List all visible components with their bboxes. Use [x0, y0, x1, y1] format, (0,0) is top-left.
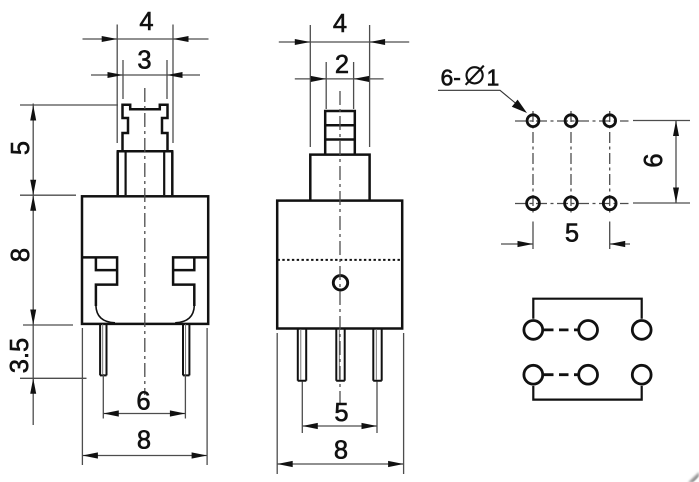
front view: main body rectangle — [82, 196, 208, 324]
svg-text:6: 6 — [136, 388, 150, 416]
svg-text:8: 8 — [7, 248, 35, 262]
dimension 8 (front view bottom overall) — [82, 328, 207, 465]
side view: plunger with ribs — [325, 111, 355, 154]
dimension 2 (side view) — [295, 51, 384, 109]
svg-text:8: 8 — [334, 437, 348, 465]
svg-text:4: 4 — [333, 10, 347, 38]
hole pattern: centerlines — [515, 111, 629, 216]
schematic: top pole bracket wire — [533, 299, 641, 319]
dimension 6 (hole pattern right) — [633, 121, 690, 204]
front view: right internal hook — [173, 257, 207, 306]
front view: push button cap outline — [123, 105, 168, 151]
dimension 6 (front view bottom pins) — [103, 374, 185, 419]
svg-text:5: 5 — [7, 141, 35, 155]
hole pattern: six drill holes — [527, 115, 617, 210]
dimension 4 (side view top) — [279, 10, 409, 147]
schematic: bottom pole bracket wire — [533, 386, 641, 400]
front view: right pin — [183, 324, 190, 375]
dimension column left: 5 / 8 / 3.5 — [6, 104, 118, 426]
schematic: top row dashed link — [544, 328, 578, 331]
front view: vertical centerline — [144, 88, 146, 395]
side view: middle pin — [336, 329, 345, 381]
dimension 8 (side view overall) — [277, 333, 403, 474]
dimension 4 (front view top) — [83, 8, 209, 143]
svg-text:3: 3 — [137, 47, 151, 75]
side view: vertical centerline — [339, 91, 341, 405]
svg-text:5: 5 — [334, 399, 348, 427]
dimension 3 (front view) — [91, 47, 200, 100]
front view: left internal hook — [83, 257, 117, 306]
front view: left pin — [100, 324, 107, 375]
front view: stem inner shaft lines — [126, 152, 165, 195]
dimension 5 (hole pattern bottom) — [501, 220, 630, 250]
svg-text:6-: 6- — [441, 64, 461, 90]
svg-text:5: 5 — [565, 220, 579, 248]
svg-text:6: 6 — [640, 153, 668, 167]
svg-text:8: 8 — [137, 427, 151, 455]
front view: stem flange rectangle — [117, 151, 174, 195]
schematic: bottom row dashed link — [544, 373, 578, 376]
schematic: contact terminals six circles — [524, 321, 651, 385]
side view: right pin — [373, 329, 382, 381]
svg-text:4: 4 — [139, 8, 153, 36]
dimension 5 (side view pins) — [302, 382, 377, 434]
svg-text:1: 1 — [487, 64, 500, 90]
page corner curl artifact — [688, 472, 699, 482]
side view: left pin — [298, 329, 307, 381]
side view: main body rectangle — [277, 201, 402, 329]
svg-text:3.5: 3.5 — [6, 338, 34, 373]
side view: dotted parting line — [278, 259, 403, 261]
side view: small hole circle — [333, 276, 347, 290]
front view: left bottom inner arc — [96, 306, 115, 323]
side view: stem flange — [310, 155, 369, 200]
front view: right bottom inner arc — [175, 306, 194, 323]
svg-text:2: 2 — [335, 51, 349, 79]
label 6-diameter-1 with leader — [438, 64, 527, 113]
